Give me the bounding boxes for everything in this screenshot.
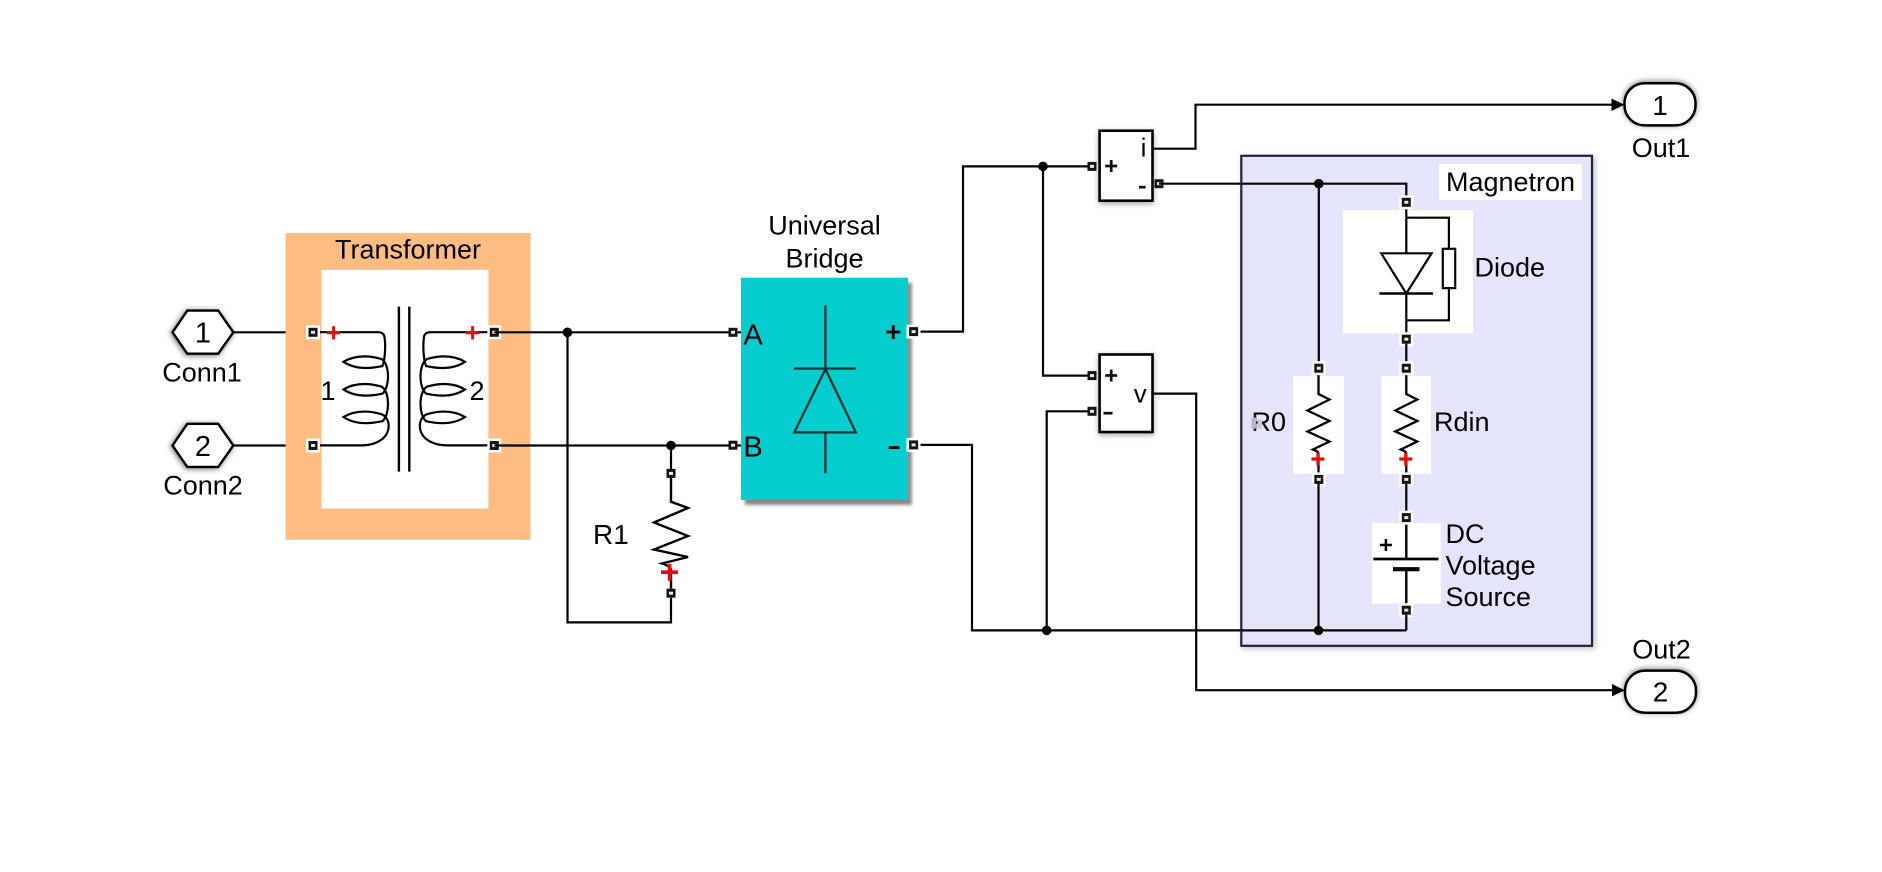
bridge port pad minus <box>907 438 921 452</box>
bridge port pad plus <box>907 325 921 339</box>
R0 top pad <box>1312 361 1326 375</box>
wire ammeter minus across magnetron / node to R0 <box>1318 184 1320 364</box>
transformer port pad right 1 <box>487 325 501 339</box>
svg-text:Magnetron: Magnetron <box>1446 167 1575 197</box>
node junction top <box>1038 162 1048 172</box>
wire R0 to bottom bus <box>1317 484 1319 631</box>
svg-text:Transformer: Transformer <box>335 235 481 265</box>
svg-text:2: 2 <box>1653 677 1669 708</box>
node junction at B wire <box>666 441 676 451</box>
wire Conn2 to transformer <box>233 444 313 446</box>
svg-text:Source: Source <box>1446 582 1532 612</box>
wire junction tap to voltmeter plus <box>1043 166 1092 375</box>
svg-text:v: v <box>1134 378 1147 408</box>
ammeter pad minus <box>1155 179 1164 188</box>
transformer port pad left 2 <box>306 439 320 453</box>
bridge port pad B <box>729 441 738 450</box>
resistor R1 <box>593 478 688 589</box>
port Conn2 <box>173 424 234 467</box>
transformer primary winding 1 <box>314 332 389 445</box>
svg-text:Conn2: Conn2 <box>163 471 243 501</box>
svg-text:i: i <box>1141 133 1147 163</box>
svg-text:Out2: Out2 <box>1632 635 1691 665</box>
node junction at magnetron top <box>1314 179 1324 189</box>
wire Conn1 to transformer <box>233 331 313 333</box>
wire diode to Rdin <box>1405 344 1407 364</box>
port Conn1 <box>173 311 234 354</box>
svg-text:Out1: Out1 <box>1632 133 1691 163</box>
resistor R1 bottom pad <box>667 589 676 598</box>
resistor Rdin <box>1382 373 1490 475</box>
svg-text:R1: R1 <box>593 519 629 550</box>
svg-text:Conn1: Conn1 <box>162 358 242 388</box>
voltmeter pad plus <box>1088 371 1097 380</box>
wire voltmeter minus to bottom bus <box>1047 411 1092 630</box>
subsystem Magnetron <box>1241 156 1592 646</box>
wire transformer to bridge B <box>494 444 741 446</box>
wire bridge plus output <box>908 166 1092 331</box>
current measurement block i <box>1100 131 1153 201</box>
svg-text:2: 2 <box>195 431 211 463</box>
svg-text:Bridge: Bridge <box>785 243 863 273</box>
bridge diode icon <box>794 305 856 473</box>
svg-text:1: 1 <box>320 376 335 406</box>
svg-text:B: B <box>743 432 762 464</box>
wire bottom bus inside magnetron <box>1241 629 1406 631</box>
svg-text:Universal: Universal <box>768 211 881 241</box>
voltmeter pad minus <box>1088 407 1097 416</box>
transformer block <box>286 233 531 540</box>
transformer port pad left 1 <box>306 325 320 339</box>
R0 bottom pad <box>1312 472 1326 486</box>
diode bottom pad <box>1399 332 1413 346</box>
wire ammeter minus to magnetron <box>1159 184 1406 198</box>
Rdin top pad <box>1399 361 1413 375</box>
output port Out2 <box>1625 671 1696 713</box>
DC voltage source <box>1372 519 1535 612</box>
resistor R1 top pad <box>667 469 676 478</box>
bridge pin label plus <box>886 325 900 339</box>
transformer port pad right 2 <box>487 439 501 453</box>
diode top pad <box>1399 195 1413 209</box>
transformer polarity mark primary <box>327 326 340 339</box>
DC source top pad <box>1399 511 1413 525</box>
svg-text:1: 1 <box>195 318 211 350</box>
svg-text:Voltage: Voltage <box>1446 551 1536 581</box>
svg-text:2: 2 <box>469 376 484 406</box>
DC source bottom pad <box>1399 603 1413 617</box>
node junction R0 bottom bus <box>1314 626 1324 636</box>
diode block Diode <box>1343 207 1545 335</box>
svg-text:DC: DC <box>1446 519 1485 549</box>
wire tap down to R1 bottom <box>568 332 672 622</box>
wire ammeter output to Out1 <box>1153 105 1613 149</box>
node junction at A wire <box>563 328 573 338</box>
wire Rdin to DC source <box>1405 484 1407 513</box>
transformer polarity mark secondary <box>466 326 479 339</box>
ammeter input pad plus <box>1088 162 1097 171</box>
transformer core <box>398 307 400 472</box>
Rdin bottom pad <box>1399 472 1413 486</box>
transformer secondary winding 2 <box>420 332 495 445</box>
output port Out1 <box>1625 83 1696 125</box>
resistor R0 <box>1252 373 1344 475</box>
universal bridge block <box>741 211 908 501</box>
bridge port pad A <box>729 328 738 337</box>
svg-text:A: A <box>743 319 763 351</box>
bridge pin label minus <box>889 446 900 449</box>
voltage measurement block v <box>1100 355 1153 433</box>
node junction bottom bus left <box>1042 626 1052 636</box>
wire DC source to bottom bus <box>1405 615 1407 631</box>
svg-text:R0: R0 <box>1252 407 1287 437</box>
svg-text:1: 1 <box>1652 90 1668 121</box>
wire bridge minus to bottom bus <box>908 445 1406 631</box>
svg-text:Diode: Diode <box>1475 253 1546 283</box>
wire ammeter minus inside magnetron <box>1241 184 1406 198</box>
wire voltmeter output to Out2 <box>1153 394 1613 691</box>
wire transformer to bridge A <box>494 331 741 333</box>
svg-text:Rdin: Rdin <box>1434 407 1490 437</box>
wire tap down to R1 top <box>670 446 672 470</box>
